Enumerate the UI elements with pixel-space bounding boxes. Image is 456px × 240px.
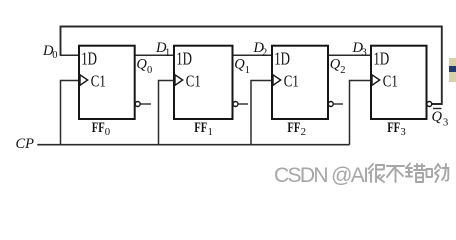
wire: Q2 to D3 interconnect: [328, 54, 371, 56]
wire: CP clock bus: [37, 144, 349, 146]
wire: clock branch to FF0: [61, 81, 80, 145]
wire: Q0 to D1 interconnect: [135, 54, 174, 56]
svg-text:2: 2: [262, 48, 267, 59]
svg-text:1: 1: [245, 65, 250, 76]
flip-flop FF0: [79, 46, 135, 119]
node FF0 label: [92, 120, 110, 138]
svg-text:1D: 1D: [81, 49, 97, 69]
node D1 label: [155, 40, 170, 59]
wire: FF2 Q-bar stub: [334, 103, 344, 105]
bu char: [387, 166, 404, 182]
svg-text:1: 1: [208, 126, 213, 138]
node FF1 label: [194, 120, 213, 138]
wire: Q1 to D2 interconnect: [233, 54, 273, 56]
FF0 inverted output bubble: [135, 102, 140, 107]
node Q2 label: [330, 57, 346, 76]
svg-text:3: 3: [362, 48, 367, 59]
node D3 label: [352, 40, 367, 59]
svg-text:1D: 1D: [176, 49, 192, 69]
cuo char: [406, 164, 412, 177]
you char: [427, 169, 433, 177]
wire: clock branch to FF2: [251, 81, 272, 145]
node D0 label: [42, 43, 57, 61]
wire: FF1 Q-bar stub: [238, 103, 248, 105]
wire: D0 input stub into FF0: [60, 54, 79, 56]
svg-text:C1: C1: [186, 72, 201, 91]
svg-text:3: 3: [443, 118, 448, 129]
node Q1 label: [234, 57, 250, 76]
svg-text:CP: CP: [16, 136, 35, 152]
svg-text:FF: FF: [287, 120, 300, 136]
wire: FF0 Q-bar stub: [140, 103, 151, 105]
svg-text:FF: FF: [387, 120, 400, 136]
node FF3 label: [387, 120, 406, 138]
flip-flop FF3: [371, 46, 427, 119]
svg-text:1D: 1D: [274, 49, 290, 69]
FF1 inverted output bubble: [233, 102, 238, 107]
svg-text:1: 1: [165, 48, 170, 59]
svg-text:Q: Q: [330, 57, 341, 73]
wire: clock branch to FF1: [159, 81, 175, 145]
svg-text:Q: Q: [234, 57, 245, 73]
svg-text:2: 2: [340, 65, 345, 76]
svg-text:0: 0: [105, 126, 110, 138]
svg-text:FF: FF: [92, 120, 105, 136]
FF2 inverted output bubble: [328, 102, 333, 107]
svg-text:C1: C1: [91, 72, 106, 91]
svg-text:Q: Q: [136, 57, 147, 73]
watermark CSDN @AI very-good (gray): [274, 164, 456, 186]
wire: feedback top horizontal from Q3-bar to D0: [61, 27, 442, 105]
node D2 label: [253, 40, 268, 59]
hen radical: [369, 164, 374, 182]
node Q3-bar output label: [432, 109, 449, 129]
svg-text:C1: C1: [284, 72, 299, 91]
flip-flop FF1: [174, 46, 233, 119]
svg-text:3: 3: [400, 126, 405, 138]
svg-text:0: 0: [147, 65, 152, 76]
node FF2 label: [287, 120, 306, 138]
svg-text:Q: Q: [432, 109, 443, 125]
svg-text:C1: C1: [383, 72, 398, 91]
svg-text:2: 2: [301, 126, 306, 138]
decorative cropped icon at right edge: [449, 58, 456, 82]
wire: clock branch to FF3: [350, 81, 372, 145]
svg-text:1D: 1D: [373, 49, 389, 69]
svg-text:FF: FF: [194, 120, 207, 136]
FF3 inverted output bubble: [427, 102, 432, 107]
node Q0 label: [136, 57, 152, 76]
flip-flop FF2: [272, 46, 328, 119]
svg-text:0: 0: [52, 50, 57, 61]
